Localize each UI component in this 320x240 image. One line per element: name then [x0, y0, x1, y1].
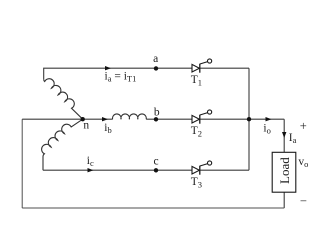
svg-text:ic: ic	[87, 155, 94, 168]
wire load bottom lead	[283, 192, 285, 208]
svg-text:io: io	[263, 122, 270, 135]
arrow Ia down	[282, 132, 286, 138]
node a	[154, 66, 158, 70]
svg-text:n: n	[83, 119, 89, 131]
arrow io	[266, 117, 272, 121]
thyristor T1	[192, 59, 212, 73]
wire load feed vertical	[283, 119, 285, 152]
wire T3 cathode to bus	[200, 169, 249, 171]
wire phase b from coil to T2	[146, 118, 192, 120]
wire bus to load top corner	[249, 118, 284, 120]
winding phase c (diagonal coil)	[42, 119, 83, 170]
load box	[272, 152, 296, 192]
arrow ib	[102, 117, 108, 121]
svg-text:c: c	[153, 156, 158, 168]
arrow ic	[88, 168, 94, 172]
arrow ia	[105, 66, 111, 70]
svg-text:+: +	[300, 119, 307, 133]
wire bottom return	[22, 207, 284, 209]
wire dc bus vertical	[248, 68, 250, 170]
svg-text:a: a	[153, 53, 158, 65]
svg-text:Ia: Ia	[289, 132, 297, 145]
wire phase a horizontal	[44, 68, 192, 79]
svg-text:T2: T2	[191, 125, 202, 139]
thyristor T3	[192, 161, 212, 175]
wire phase b from node n to coil	[83, 118, 113, 120]
wire T1 cathode to bus	[200, 67, 249, 69]
svg-text:T3: T3	[191, 176, 202, 190]
svg-text:ia = iT1: ia = iT1	[105, 70, 137, 83]
node n	[81, 117, 85, 121]
wire left return vertical	[21, 119, 23, 208]
svg-text:Load: Load	[277, 157, 292, 184]
svg-text:T1: T1	[191, 74, 202, 88]
wire phase c horizontal	[43, 169, 192, 171]
winding phase b (horizontal coil)	[113, 114, 147, 119]
node c	[154, 168, 158, 172]
wire neutral to node n	[22, 118, 82, 120]
svg-text:ib: ib	[104, 122, 111, 135]
junction node at bus	[247, 117, 251, 121]
thyristor T2	[192, 110, 212, 124]
winding phase a (diagonal coil)	[44, 79, 83, 119]
svg-text:−: −	[300, 194, 307, 208]
svg-text:b: b	[154, 106, 160, 118]
wire T2 cathode to bus	[200, 118, 249, 120]
svg-text:vo: vo	[298, 156, 308, 169]
node b	[154, 117, 158, 121]
